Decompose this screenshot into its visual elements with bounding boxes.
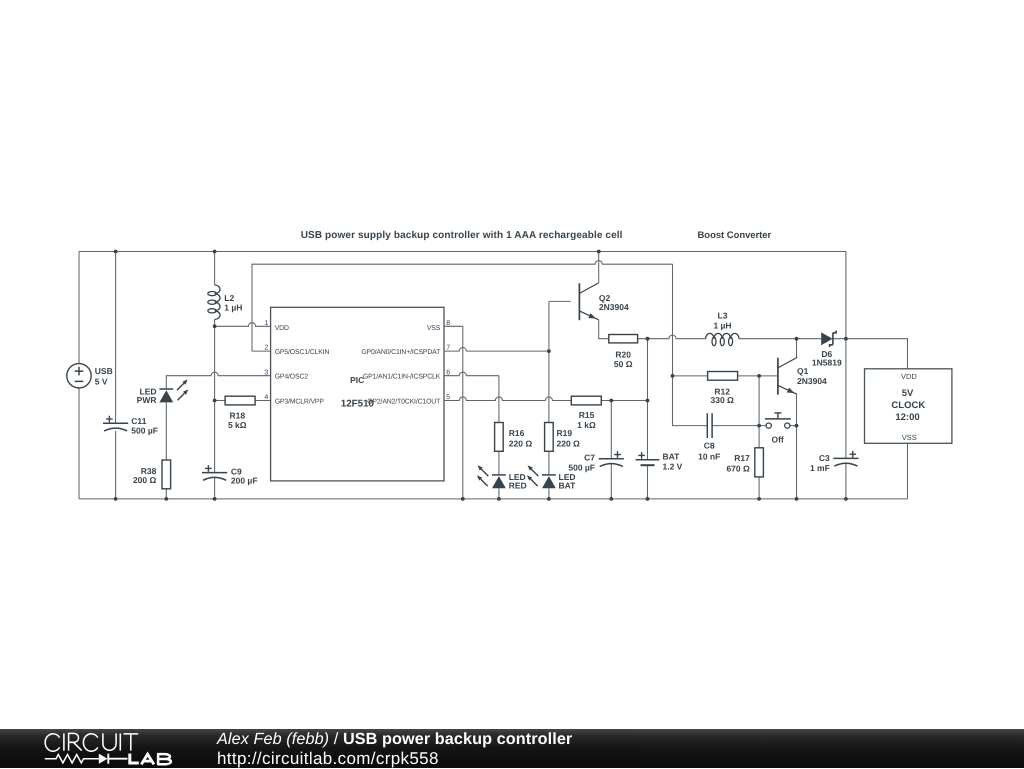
- node bottom rail / LED BAT: [547, 497, 551, 501]
- svg-text:BAT: BAT: [559, 481, 577, 491]
- resistor R20: [609, 335, 638, 343]
- wire pin 1 VDD with hop: [215, 323, 271, 327]
- svg-text:USB power supply backup contro: USB power supply backup controller with …: [301, 230, 623, 241]
- wire pin 3 GP4 from LED PWR with hop: [166, 372, 270, 389]
- node bottom rail / Q1 emitter: [795, 497, 799, 501]
- node bottom rail / C7: [609, 497, 613, 501]
- capacitor C3: [833, 451, 858, 466]
- wire LED PWR to R38: [165, 403, 167, 460]
- svg-text:GP1/AN1/C1IN-/ICSPCLK: GP1/AN1/C1IN-/ICSPCLK: [363, 374, 441, 381]
- node GP0 / Q2 base: [547, 349, 551, 353]
- svg-text:200 µF: 200 µF: [231, 475, 258, 485]
- svg-text:C7: C7: [584, 452, 595, 462]
- resistor R17: [755, 448, 764, 477]
- svg-text:Q1: Q1: [797, 366, 809, 376]
- transistor Q1: [778, 357, 797, 394]
- svg-text:Boost Converter: Boost Converter: [698, 230, 772, 241]
- wire pin 6 GP1 with hop: [444, 372, 499, 376]
- 5V clock block: [865, 369, 952, 444]
- resistor R38: [162, 460, 171, 489]
- node bottom rail / C3: [844, 497, 848, 501]
- resistor R15: [571, 396, 601, 405]
- svg-text:5: 5: [446, 394, 450, 401]
- wire L2 bottom lead to node VDD: [214, 319, 216, 326]
- svg-text:PWR: PWR: [137, 395, 157, 405]
- resistor R19: [545, 423, 554, 452]
- node bottom rail / C9: [213, 497, 217, 501]
- svg-text:1 mF: 1 mF: [810, 463, 830, 473]
- node switch / Q1 emitter: [795, 424, 799, 428]
- svg-text:R18: R18: [230, 410, 246, 420]
- wire L2 top lead: [214, 252, 216, 286]
- svg-text:CLOCK: CLOCK: [891, 400, 925, 411]
- svg-text:RED: RED: [509, 481, 527, 491]
- node bottom rail / VSS: [461, 497, 465, 501]
- svg-text:GP5/OSC1/CLKIN: GP5/OSC1/CLKIN: [275, 349, 330, 356]
- CircuitLab logo CIRCUIT lettering: [45, 733, 138, 751]
- svg-text:VDD: VDD: [901, 372, 917, 381]
- svg-text:1 kΩ: 1 kΩ: [577, 420, 596, 430]
- svg-text:1: 1: [264, 320, 268, 327]
- wire L2 node down to R18/C9: [214, 326, 216, 472]
- LED BAT: [527, 465, 556, 488]
- wire R38 to bottom rail: [165, 489, 167, 499]
- wire VSS vertical to bottom rail: [462, 326, 464, 499]
- wire left rail upper (USB + lead): [78, 252, 80, 364]
- transistor Q2: [579, 283, 598, 320]
- CircuitLab logo resistor zigzag: [45, 755, 99, 763]
- svg-text:220 Ω: 220 Ω: [509, 438, 533, 448]
- svg-text:C3: C3: [819, 453, 830, 463]
- svg-text:5V: 5V: [902, 388, 914, 399]
- wire C7 top lead: [610, 401, 612, 459]
- node bottom rail / LED RED: [497, 497, 501, 501]
- wire C3 to bottom rail: [845, 462, 847, 499]
- wire pin 4 GP3 stub: [255, 400, 271, 402]
- wire BAT bottom lead: [647, 465, 649, 499]
- svg-text:4: 4: [264, 394, 268, 401]
- node bottom rail / R38: [164, 497, 168, 501]
- wire BAT top lead: [647, 401, 649, 460]
- svg-text:L2: L2: [224, 293, 234, 303]
- svg-text:1 µH: 1 µH: [224, 302, 242, 312]
- node R12 / Q1 base / R17: [757, 374, 761, 378]
- svg-text:1N5819: 1N5819: [812, 358, 842, 368]
- svg-text:8: 8: [446, 320, 450, 327]
- wire Q1 emitter to bottom rail: [796, 426, 798, 499]
- wire R15 right lead to node BATfeed: [601, 400, 647, 402]
- wire R12out vertical to R17: [758, 376, 760, 448]
- node bottom rail / BAT: [646, 497, 650, 501]
- svg-text:VDD: VDD: [275, 325, 289, 332]
- footer url line: [217, 749, 439, 769]
- svg-text:7: 7: [446, 345, 450, 352]
- wire R12 left lead: [673, 375, 708, 377]
- wire L3 right to D6: [739, 338, 821, 340]
- wire clock VSS to bottom rail: [907, 443, 909, 499]
- wire C11 branch lower: [115, 431, 117, 499]
- node C8 / switch / R17: [757, 424, 761, 428]
- wire GP5 net right vertical: [672, 264, 674, 376]
- svg-text:5 V: 5 V: [95, 376, 108, 386]
- node R15 / C7: [609, 399, 613, 403]
- svg-text:GP3/MCLR/VPP: GP3/MCLR/VPP: [275, 399, 325, 406]
- wire C9 to bottom rail: [214, 477, 216, 499]
- voltage source USB 5V: [67, 364, 91, 388]
- node top rail / L2: [213, 250, 217, 254]
- transistor Q1 emitter arrow: [787, 388, 795, 394]
- svg-text:220 Ω: 220 Ω: [557, 438, 581, 448]
- wire C8 right to switch: [712, 425, 766, 427]
- wire D6 cathode to corner: [833, 339, 908, 369]
- wire top rail right corner down to node out: [845, 252, 847, 339]
- svg-text:6: 6: [446, 369, 450, 376]
- wire R20 right with hop to L3: [638, 335, 706, 339]
- wire LED RED to bottom rail: [498, 488, 500, 499]
- svg-text:R19: R19: [557, 428, 573, 438]
- svg-text:C8: C8: [704, 441, 715, 451]
- svg-text:R16: R16: [509, 428, 525, 438]
- wire R12 right to Q1 base: [738, 375, 778, 377]
- svg-text:R20: R20: [615, 349, 631, 359]
- svg-text:500 µF: 500 µF: [568, 462, 595, 472]
- svg-text:GP2/AN2/T0CKI/C1OUT: GP2/AN2/T0CKI/C1OUT: [367, 399, 441, 406]
- node R18/C9: [213, 399, 217, 403]
- CircuitLab logo LAB lettering: [130, 754, 171, 765]
- svg-text:3: 3: [264, 369, 268, 376]
- node D6 out: [844, 337, 848, 341]
- wire GP5 net vertical+top run with hop: [252, 261, 673, 352]
- wire pin 7 GP0 with hop to node Q2 base: [444, 348, 549, 352]
- wire R16 to LED RED: [498, 451, 500, 475]
- wire Q2 emitter to R20: [599, 320, 609, 339]
- capacitor C7: [599, 451, 624, 466]
- capacitor C8: [707, 413, 712, 438]
- LED RED: [477, 465, 506, 488]
- svg-text:1.2 V: 1.2 V: [663, 462, 683, 472]
- wire Q2 base vertical to R19: [548, 301, 550, 422]
- wire Q1 emitter vertical: [796, 395, 798, 426]
- svg-text:2N3904: 2N3904: [797, 376, 827, 386]
- svg-text:12:00: 12:00: [895, 412, 919, 423]
- pushbutton switch Off: [765, 413, 791, 428]
- inductor L3: [706, 333, 739, 345]
- svg-text:2: 2: [264, 345, 268, 352]
- node BAT feed: [646, 399, 650, 403]
- node bottom rail / C11: [114, 497, 118, 501]
- wire node R20out down to pin5 net: [647, 339, 649, 401]
- wire GP5 net down to C8 run: [673, 376, 708, 426]
- resistor R12: [708, 372, 738, 381]
- wire R19 to LED BAT: [548, 451, 550, 475]
- svg-text:50 Ω: 50 Ω: [614, 359, 633, 369]
- battery BAT 1.2V: [636, 452, 660, 465]
- footer black bar: [0, 729, 1024, 768]
- node GP5 / R12: [671, 374, 675, 378]
- svg-text:GP0/AN0/C1IN+/ICSPDAT: GP0/AN0/C1IN+/ICSPDAT: [361, 349, 441, 356]
- svg-text:330 Ω: 330 Ω: [711, 395, 735, 405]
- wire switch right to Q1 emitter: [790, 425, 797, 427]
- wire GP1 vertical to R16: [498, 376, 500, 423]
- capacitor C9: [202, 465, 227, 480]
- svg-text:USB: USB: [95, 366, 113, 376]
- diode D6 1N5819: [821, 331, 836, 347]
- svg-text:GP4/OSC2: GP4/OSC2: [275, 374, 309, 381]
- svg-text:200 Ω: 200 Ω: [133, 475, 157, 485]
- node R20 out: [646, 337, 650, 341]
- transistor Q2 emitter arrow: [588, 313, 596, 319]
- svg-text:VSS: VSS: [427, 325, 441, 332]
- node top rail / C11: [114, 250, 118, 254]
- svg-text:R15: R15: [579, 410, 595, 420]
- wire Q2 collector to top rail: [598, 252, 600, 283]
- CircuitLab logo diode: [99, 754, 108, 764]
- capacitor C11: [103, 416, 128, 431]
- svg-text:Off: Off: [771, 435, 783, 445]
- wire pin 8 VSS stub: [444, 325, 463, 327]
- svg-text:1 µH: 1 µH: [713, 321, 731, 331]
- svg-text:500 µF: 500 µF: [131, 425, 158, 435]
- svg-text:10 nF: 10 nF: [698, 452, 720, 462]
- node L3 / Q1 collector: [795, 337, 799, 341]
- wire Q1 collector vertical: [796, 339, 798, 358]
- wire R18 left lead: [215, 400, 226, 402]
- wire node out down to C3: [845, 339, 847, 459]
- svg-text:BAT: BAT: [663, 451, 681, 461]
- node bottom rail / R17: [757, 497, 761, 501]
- resistor R16: [495, 423, 504, 452]
- wire R17 to bottom rail: [758, 477, 760, 499]
- wire pin 2 GP5 stub: [252, 350, 271, 352]
- svg-text:670 Ω: 670 Ω: [726, 464, 750, 474]
- wire LED BAT to bottom rail: [548, 488, 550, 499]
- op-amp U1 PIC 12F510 box: [271, 307, 444, 481]
- wire C7 bottom lead: [610, 463, 612, 499]
- svg-text:5 kΩ: 5 kΩ: [228, 420, 247, 430]
- wire Q2 base run: [549, 300, 571, 302]
- node VDD (L2/pin1): [213, 324, 217, 328]
- svg-text:L3: L3: [718, 311, 728, 321]
- resistor R18: [225, 396, 255, 405]
- wire pin 5 GP2 with hops to R15: [444, 397, 571, 401]
- wire C11 branch upper: [115, 252, 117, 424]
- svg-text:VSS: VSS: [902, 433, 917, 442]
- svg-text:2N3904: 2N3904: [599, 302, 629, 312]
- wire left rail lower (USB - lead): [78, 388, 80, 499]
- node top rail / Q2 collector: [597, 250, 601, 254]
- inductor L2: [208, 285, 220, 319]
- wire top rail: [79, 251, 846, 253]
- footer credit line: [217, 730, 572, 749]
- LED PWR: [159, 379, 188, 402]
- svg-text:R17: R17: [734, 453, 750, 463]
- wire bottom rail: [79, 498, 908, 500]
